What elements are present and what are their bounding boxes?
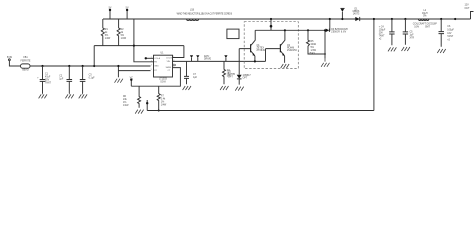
ground C5 bbox=[402, 47, 410, 51]
ground C3 bbox=[79, 93, 87, 98]
capacitor C5 bbox=[404, 18, 406, 20]
svg-text:5%: 5% bbox=[311, 47, 314, 49]
wire Q1 emitter to bus bbox=[254, 56, 256, 62]
ground C2 bbox=[65, 93, 73, 98]
svg-text:1/4W: 1/4W bbox=[105, 38, 111, 40]
node feedback tap bbox=[146, 100, 148, 111]
wire FB column from rail to U1 pin2 bbox=[134, 19, 154, 62]
svg-text:1%: 1% bbox=[123, 102, 126, 104]
capacitor C7 bbox=[184, 61, 189, 84]
svg-text:OPT: OPT bbox=[228, 76, 233, 78]
wire mid rail left drop bbox=[93, 46, 95, 66]
transistor box Q1 Q2 dashed bbox=[244, 22, 298, 69]
transistor Q1 bbox=[239, 30, 255, 56]
wire collector feed stub bbox=[270, 19, 272, 30]
wire input rail bbox=[30, 65, 151, 67]
svg-text:4: 4 bbox=[151, 65, 152, 67]
wire U1 right pin3 down bbox=[131, 68, 180, 87]
core square bbox=[227, 29, 239, 38]
capacitor C1 bbox=[41, 65, 43, 67]
svg-text:TANT: TANT bbox=[45, 81, 51, 84]
svg-text:SHDN: SHDN bbox=[166, 67, 172, 69]
ground Q2 bbox=[281, 64, 289, 68]
svg-text:OPT: OPT bbox=[243, 78, 248, 80]
svg-text:L1B: L1B bbox=[190, 10, 195, 12]
capacitor C2 bbox=[68, 65, 70, 67]
svg-text:+ C4: + C4 bbox=[379, 27, 385, 29]
svg-text:1μF: 1μF bbox=[410, 35, 415, 37]
inductor L2 bbox=[418, 19, 428, 21]
svg-text:FERRITE: FERRITE bbox=[21, 61, 31, 63]
svg-text:16V: 16V bbox=[447, 33, 452, 35]
inductor L1B bbox=[187, 19, 199, 21]
transistor Q2 bbox=[266, 30, 285, 56]
wire mid rail right drop to U1 bbox=[173, 46, 184, 58]
svg-text:100μF: 100μF bbox=[379, 30, 386, 32]
svg-text:ZENER 6.8V: ZENER 6.8V bbox=[331, 32, 346, 34]
svg-text:330Ω: 330Ω bbox=[311, 44, 317, 46]
wire U1 drive bus bbox=[173, 60, 266, 62]
node R5/D3 junction bbox=[324, 53, 326, 55]
svg-text:5%: 5% bbox=[423, 16, 426, 18]
svg-text:25V: 25V bbox=[45, 80, 50, 82]
svg-text:BIAS: BIAS bbox=[310, 52, 316, 55]
diode D3 bbox=[326, 29, 330, 33]
svg-text:LT1533: LT1533 bbox=[159, 79, 167, 81]
terminal VOUT bbox=[471, 12, 474, 20]
svg-text:OUT: OUT bbox=[465, 8, 470, 10]
resistor R5 bbox=[307, 29, 309, 31]
svg-text:140T3: 140T3 bbox=[353, 13, 360, 15]
node output junction 2 bbox=[454, 18, 456, 20]
svg-text:COL A: COL A bbox=[154, 57, 160, 60]
svg-text:FB1: FB1 bbox=[23, 57, 28, 59]
ground R6 bbox=[135, 110, 143, 114]
svg-text:1/4W: 1/4W bbox=[311, 50, 317, 52]
svg-text:5V: 5V bbox=[109, 8, 112, 10]
svg-text:1μF: 1μF bbox=[59, 78, 64, 80]
svg-text:ZTX849: ZTX849 bbox=[257, 50, 266, 52]
ground R4 bbox=[220, 86, 228, 90]
capacitor C4 bbox=[391, 18, 393, 20]
capacitor C6 bbox=[440, 18, 442, 20]
svg-text:2SD2153: 2SD2153 bbox=[287, 50, 297, 52]
wire top rail VIN-boost bbox=[103, 18, 471, 20]
svg-text:TANT: TANT bbox=[447, 35, 453, 38]
pin labels U1 bbox=[154, 57, 172, 72]
svg-text:SMT: SMT bbox=[425, 26, 430, 28]
svg-text:COL B: COL B bbox=[166, 57, 172, 59]
ground C1 bbox=[39, 93, 47, 98]
ground R5 bbox=[321, 59, 329, 67]
ground input rail bbox=[117, 66, 119, 77]
resistor R4 bbox=[223, 61, 226, 84]
diode D1 bbox=[355, 17, 359, 21]
svg-text:20V: 20V bbox=[379, 33, 384, 35]
svg-text:10%: 10% bbox=[414, 26, 419, 28]
svg-text:3: 3 bbox=[151, 60, 152, 62]
pin numbers U1 bbox=[151, 56, 175, 71]
test point arrow 1 bbox=[191, 58, 193, 61]
ferrite bead FB1 bbox=[21, 64, 31, 68]
svg-text:DRIVE: DRIVE bbox=[204, 58, 212, 60]
svg-text:0.1μF: 0.1μF bbox=[89, 77, 96, 79]
node VIN stub A bbox=[109, 10, 111, 19]
svg-text:5%: 5% bbox=[105, 35, 108, 37]
svg-text:GND: GND bbox=[154, 66, 159, 68]
ground D2 bbox=[235, 87, 243, 91]
capacitor C3 bbox=[82, 65, 84, 67]
resistor R2 bbox=[117, 19, 120, 46]
ground C4 bbox=[388, 47, 396, 51]
svg-text:1μF: 1μF bbox=[193, 77, 198, 79]
wire mid rail bbox=[94, 45, 184, 47]
svg-text:47μF: 47μF bbox=[45, 77, 51, 79]
wire Q2 emitter to ground bbox=[284, 56, 286, 63]
wire U1 pin stub right row3 bbox=[173, 64, 177, 66]
svg-text:5V: 5V bbox=[126, 8, 129, 10]
node junction mid rail / FB column bbox=[133, 45, 135, 47]
op-amp U1 LT1533 bbox=[154, 55, 173, 77]
wire U1 pin1 stub bbox=[145, 57, 153, 59]
svg-text:**: ** bbox=[423, 21, 425, 23]
arrow VIN mid bbox=[341, 12, 343, 19]
resistor R1 bbox=[101, 19, 104, 46]
test point arrow 2 bbox=[197, 58, 199, 61]
svg-text:WIND THE INDUCTOR (L1B) ON A C: WIND THE INDUCTOR (L1B) ON A CUT FERRITE… bbox=[177, 13, 233, 16]
resistor R7 feedback bottom bbox=[157, 86, 160, 110]
wire Q2 base riser bbox=[265, 49, 267, 62]
wire U1 COL B to top bbox=[173, 57, 184, 59]
svg-text:33μH: 33μH bbox=[422, 13, 428, 15]
test point arrow 3 bbox=[225, 58, 227, 61]
svg-text:VC: VC bbox=[130, 77, 134, 79]
svg-text:1/4W: 1/4W bbox=[121, 38, 127, 40]
node R7 bottom junction bbox=[158, 110, 160, 112]
svg-text:TANT: TANT bbox=[379, 35, 385, 38]
svg-text:5: 5 bbox=[151, 69, 152, 71]
node VIN stub B bbox=[126, 10, 128, 19]
svg-text:12V: 12V bbox=[465, 5, 470, 7]
svg-text:1/4W: 1/4W bbox=[123, 105, 129, 107]
resistor R6 feedback top bbox=[138, 86, 141, 108]
svg-text:100μF: 100μF bbox=[447, 29, 454, 31]
svg-text:BEAD: BEAD bbox=[22, 69, 29, 72]
svg-text:SO-8: SO-8 bbox=[160, 81, 166, 83]
wire collector line bbox=[255, 29, 325, 31]
wire R5 node down bbox=[324, 30, 326, 58]
diode D2 base clamp bbox=[238, 49, 240, 75]
svg-text:1/4W: 1/4W bbox=[161, 104, 167, 106]
svg-text:5%: 5% bbox=[121, 35, 124, 37]
wire U1 GND pin bbox=[118, 70, 150, 72]
node output junction 1 bbox=[373, 18, 375, 20]
wire bottom return bbox=[147, 110, 374, 112]
node VC bbox=[130, 80, 132, 86]
svg-text:1%: 1% bbox=[161, 101, 164, 103]
svg-text:COILCRAFT DO3316P: COILCRAFT DO3316P bbox=[413, 23, 437, 26]
ground C6 bbox=[437, 49, 445, 53]
svg-text:X7R: X7R bbox=[410, 38, 415, 40]
svg-text:2: 2 bbox=[151, 57, 152, 59]
ground C7 bbox=[183, 86, 191, 90]
